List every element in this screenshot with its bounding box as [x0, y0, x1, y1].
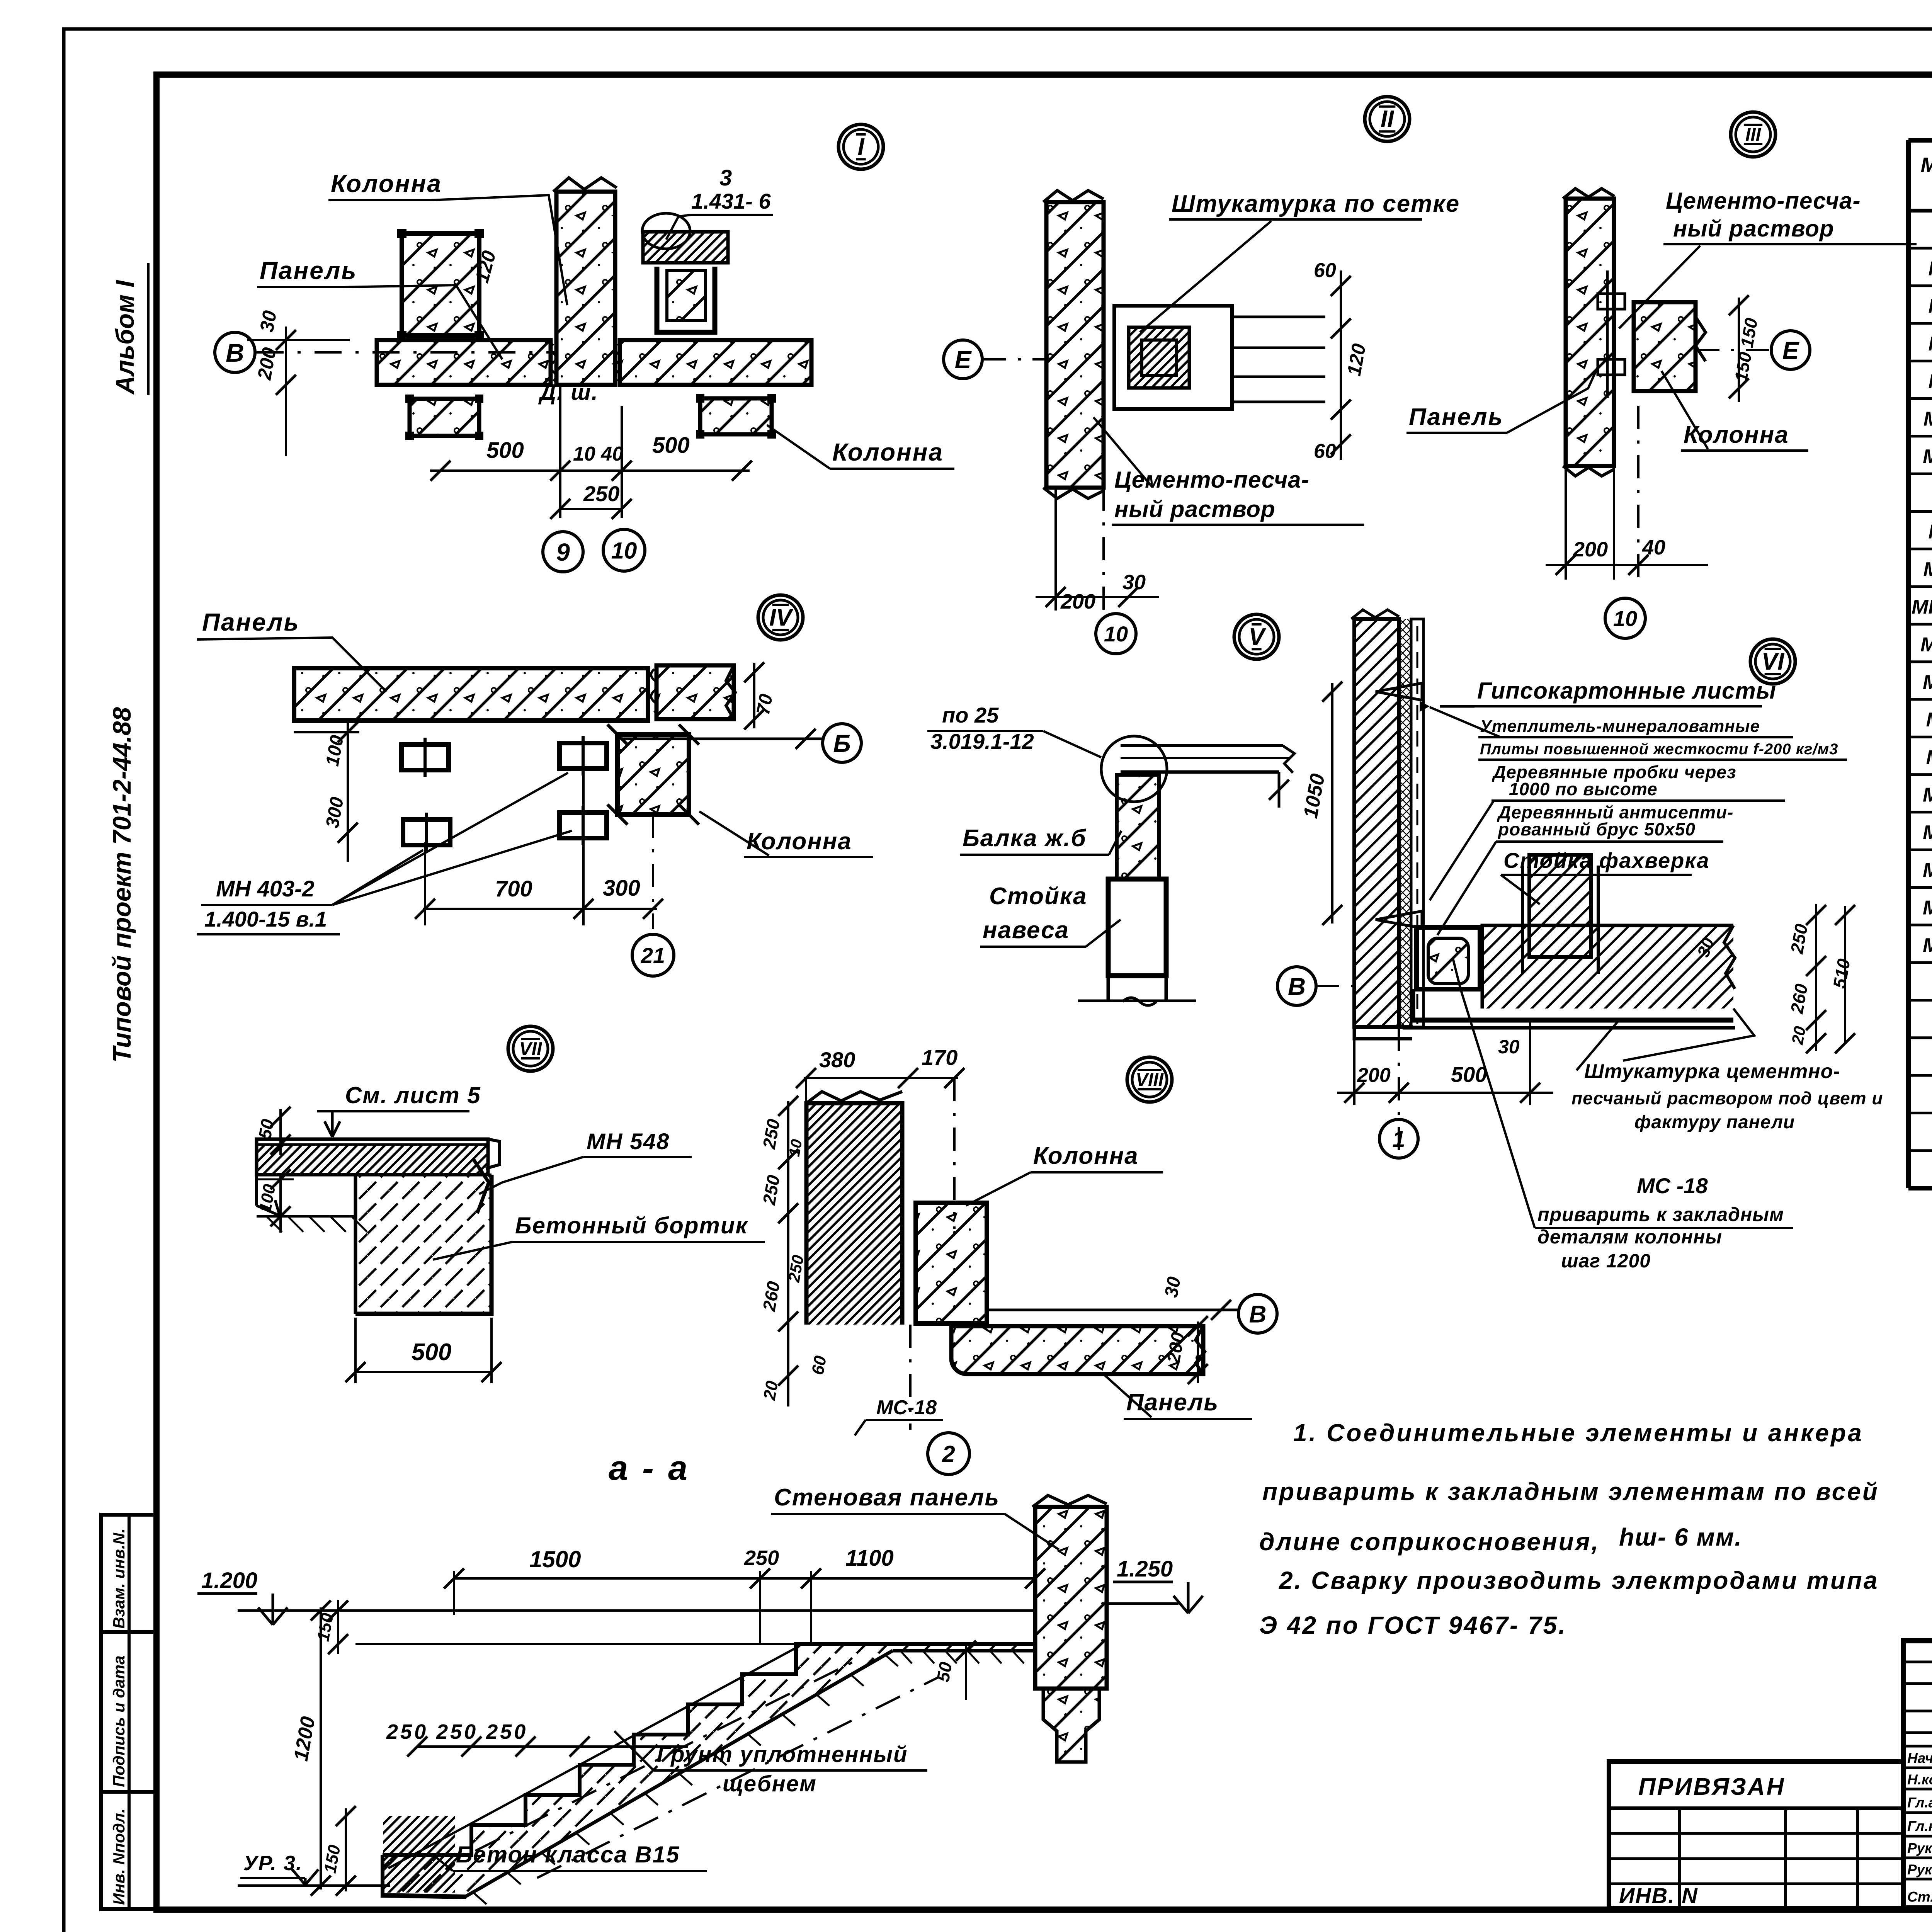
svg-text:500: 500	[1451, 1062, 1487, 1087]
svg-text:по 25: по 25	[942, 703, 999, 727]
svg-text:Грунт уплотненный: Грунт уплотненный	[657, 1742, 908, 1767]
svg-text:щебнем: щебнем	[723, 1771, 817, 1796]
svg-text:деталям колонны: деталям колонны	[1537, 1226, 1722, 1248]
svg-text:Э 42 по ГОСТ 9467- 75.: Э 42 по ГОСТ 9467- 75.	[1259, 1611, 1567, 1639]
svg-text:VIII: VIII	[1136, 1070, 1164, 1090]
svg-text:Панель: Панель	[202, 608, 299, 636]
svg-text:200: 200	[1573, 538, 1608, 561]
svg-text:МС-1: МС-1	[1928, 257, 1932, 280]
svg-text:Штукатурка цементно-: Штукатурка цементно-	[1584, 1060, 1840, 1083]
svg-text:Марка: Марка	[1921, 153, 1932, 177]
svg-text:1: 1	[1392, 1126, 1405, 1152]
svg-text:10 40: 10 40	[573, 443, 623, 465]
svg-text:Штукатурка по сетке: Штукатурка по сетке	[1172, 190, 1460, 217]
svg-text:ИНВ. N: ИНВ. N	[1619, 1883, 1698, 1908]
svg-text:МС-18: МС-18	[876, 1396, 937, 1419]
svg-text:Взам. инв.N.: Взам. инв.N.	[110, 1528, 128, 1629]
svg-text:170: 170	[922, 1045, 957, 1070]
svg-text:30: 30	[256, 309, 281, 334]
svg-text:МС-26: МС-26	[1923, 671, 1932, 694]
svg-text:ный раствор: ный раствор	[1114, 496, 1276, 522]
svg-text:Инв. Nподл.: Инв. Nподл.	[110, 1808, 128, 1905]
svg-text:МС-51: МС-51	[1923, 821, 1932, 844]
svg-text:250 250 250: 250 250 250	[386, 1720, 528, 1743]
svg-text:Д. ш.: Д. ш.	[538, 380, 599, 405]
svg-text:длине соприкосновения,: длине соприкосновения,	[1259, 1528, 1600, 1556]
svg-text:Гл.арх.отд: Гл.арх.отд	[1907, 1795, 1932, 1811]
svg-text:V: V	[1248, 624, 1266, 650]
svg-text:500: 500	[652, 433, 690, 458]
svg-text:1100: 1100	[845, 1546, 894, 1571]
svg-text:I: I	[857, 134, 865, 160]
svg-text:VI: VI	[1762, 648, 1785, 675]
svg-text:50: 50	[933, 1660, 956, 1684]
svg-text:шаг 1200: шаг 1200	[1561, 1250, 1651, 1272]
svg-text:МН548: МН548	[1920, 633, 1932, 656]
svg-text:Рук.гр.арх: Рук.гр.арх	[1907, 1840, 1932, 1856]
svg-text:МС -18: МС -18	[1637, 1173, 1708, 1198]
svg-text:См. лист 5: См. лист 5	[345, 1082, 481, 1108]
svg-text:МС30: МС30	[1926, 709, 1932, 731]
svg-text:Альбом I: Альбом I	[111, 280, 139, 395]
svg-text:Колонна: Колонна	[1033, 1143, 1139, 1169]
svg-text:20: 20	[1788, 1025, 1809, 1046]
svg-text:30: 30	[1498, 1036, 1520, 1058]
svg-text:Н.контр.: Н.контр.	[1907, 1772, 1932, 1787]
svg-text:Б: Б	[833, 730, 850, 757]
svg-text:10: 10	[1104, 622, 1128, 646]
svg-text:ный раствор: ный раствор	[1673, 216, 1834, 241]
svg-text:II: II	[1381, 106, 1395, 133]
svg-text:МН 548: МН 548	[587, 1129, 670, 1154]
svg-text:Бетонный бортик: Бетонный бортик	[515, 1213, 748, 1238]
svg-text:380: 380	[819, 1048, 855, 1072]
svg-text:200: 200	[1060, 590, 1095, 613]
svg-text:Типовой проект 701-2-44.88: Типовой проект 701-2-44.88	[107, 707, 136, 1063]
svg-text:В: В	[1288, 973, 1306, 1000]
svg-text:Гипсокартонные листы: Гипсокартонные листы	[1477, 678, 1776, 704]
svg-text:Цементо-песча-: Цементо-песча-	[1666, 188, 1861, 214]
svg-text:500: 500	[412, 1339, 451, 1366]
svg-text:10: 10	[786, 1138, 806, 1158]
svg-text:Бетон класса В15: Бетон класса В15	[456, 1842, 680, 1867]
svg-text:10: 10	[611, 538, 637, 564]
svg-text:Рук.гр.кон: Рук.гр.кон	[1907, 1862, 1932, 1878]
svg-text:21: 21	[641, 943, 665, 968]
svg-text:МС-50: МС-50	[1923, 784, 1932, 806]
svg-text:hш- 6 мм.: hш- 6 мм.	[1619, 1523, 1742, 1551]
svg-text:МС-3: МС-3	[1928, 333, 1932, 355]
svg-text:МС-11: МС-11	[1923, 408, 1932, 430]
svg-text:Гл.кон.отд: Гл.кон.отд	[1907, 1818, 1932, 1834]
svg-text:250: 250	[583, 481, 619, 506]
svg-text:2: 2	[942, 1441, 955, 1467]
svg-text:3.019.1-12: 3.019.1-12	[930, 729, 1034, 753]
svg-text:20: 20	[760, 1379, 782, 1402]
svg-text:Утеплитель-минераловатные: Утеплитель-минераловатные	[1480, 717, 1760, 736]
svg-text:40: 40	[1642, 536, 1665, 559]
svg-text:700: 700	[495, 876, 532, 901]
svg-text:Колонна: Колонна	[832, 438, 944, 466]
svg-text:60: 60	[1314, 440, 1336, 463]
svg-text:IV: IV	[769, 604, 794, 631]
svg-text:Стеновая панель: Стеновая панель	[774, 1484, 1000, 1511]
svg-text:МС-52: МС-52	[1923, 859, 1932, 881]
svg-text:60: 60	[808, 1354, 830, 1376]
svg-text:1. Соединительные элементы и: 1. Соединительные элементы и анкера	[1293, 1419, 1864, 1447]
svg-text:1.400-15 в.1: 1.400-15 в.1	[204, 907, 327, 931]
svg-text:песчаный раствором под цвет и: песчаный раствором под цвет и	[1571, 1088, 1883, 1108]
svg-text:В: В	[1249, 1301, 1267, 1328]
svg-text:Плиты повышенной жесткости f-2: Плиты повышенной жесткости f-200 кг/м3	[1480, 741, 1838, 758]
svg-text:МС-18: МС-18	[1923, 446, 1932, 468]
svg-text:60: 60	[1314, 259, 1336, 282]
svg-text:МН 13: МН 13	[1923, 558, 1932, 581]
svg-text:VII: VII	[519, 1039, 543, 1059]
svg-text:1.431- 6: 1.431- 6	[691, 189, 771, 213]
svg-text:2. Сварку производить электр: 2. Сварку производить электродами типа	[1279, 1566, 1879, 1594]
svg-text:МС34: МС34	[1926, 746, 1932, 769]
svg-text:В: В	[226, 338, 244, 367]
svg-text:300: 300	[603, 876, 640, 901]
svg-text:1.200: 1.200	[201, 1568, 257, 1593]
svg-text:70: 70	[753, 692, 777, 716]
svg-text:приварить к закладным элеме: приварить к закладным элементам по всей	[1262, 1478, 1879, 1505]
svg-text:30: 30	[1122, 571, 1146, 594]
svg-text:приварить к закладным: приварить к закладным	[1537, 1204, 1784, 1225]
svg-text:Панель: Панель	[260, 257, 357, 284]
svg-text:МС-4: МС-4	[1928, 370, 1932, 393]
svg-text:Панель: Панель	[1409, 404, 1503, 430]
svg-text:Колонна: Колонна	[331, 170, 442, 197]
svg-text:30: 30	[1161, 1275, 1185, 1299]
svg-text:9: 9	[556, 538, 570, 566]
svg-text:навеса: навеса	[983, 917, 1069, 944]
svg-text:Ст. АРХ.: Ст. АРХ.	[1907, 1889, 1932, 1905]
svg-text:Стойка: Стойка	[989, 883, 1087, 910]
svg-text:Подпись и дата: Подпись и дата	[110, 1656, 128, 1787]
svg-text:МН-1: МН-1	[1928, 521, 1932, 543]
svg-text:МН 403-2: МН 403-2	[216, 876, 315, 901]
svg-text:10: 10	[1613, 606, 1637, 631]
svg-text:1000 по высоте: 1000 по высоте	[1509, 779, 1658, 799]
svg-text:III: III	[1745, 124, 1762, 145]
svg-text:Цементо-песча-: Цементо-песча-	[1114, 467, 1309, 493]
svg-text:Е: Е	[955, 346, 972, 374]
svg-text:1.250: 1.250	[1117, 1556, 1173, 1582]
svg-text:200: 200	[1357, 1064, 1391, 1087]
svg-text:50: 50	[255, 1117, 278, 1141]
svg-text:1500: 1500	[529, 1546, 581, 1572]
svg-text:Нач. отд: Нач. отд	[1907, 1750, 1932, 1766]
svg-text:рованный брус 50х50: рованный брус 50х50	[1497, 819, 1696, 839]
svg-text:МС-59: МС-59	[1923, 934, 1932, 957]
svg-text:Балка ж.б: Балка ж.б	[963, 825, 1087, 852]
svg-text:ПРИВЯЗАН: ПРИВЯЗАН	[1638, 1774, 1785, 1800]
svg-text:МС-2: МС-2	[1928, 295, 1932, 318]
svg-text:МН403-2: МН403-2	[1912, 596, 1932, 618]
svg-text:Панель: Панель	[1126, 1389, 1219, 1416]
svg-text:500: 500	[486, 438, 524, 463]
svg-text:Е: Е	[1782, 337, 1800, 364]
svg-text:250: 250	[744, 1546, 779, 1570]
svg-text:фактуру панели: фактуру панели	[1634, 1112, 1795, 1133]
svg-text:3: 3	[719, 165, 732, 190]
svg-text:а - а: а - а	[609, 1449, 690, 1488]
svg-text:МС-55: МС-55	[1923, 897, 1932, 919]
